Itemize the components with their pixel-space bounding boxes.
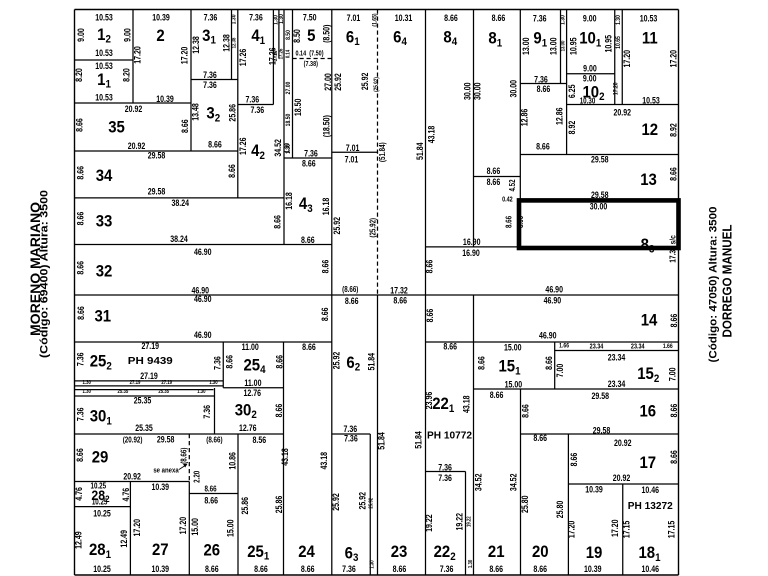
svg-text:17.33 s/c: 17.33 s/c (668, 235, 678, 263)
svg-text:46.90: 46.90 (545, 284, 563, 294)
svg-text:23.34: 23.34 (608, 352, 626, 362)
svg-text:25.35: 25.35 (135, 423, 153, 433)
svg-text:23: 23 (391, 543, 408, 561)
se anexa annotation (153, 464, 187, 475)
svg-text:7.36: 7.36 (203, 80, 217, 90)
svg-text:2: 2 (156, 27, 164, 45)
svg-text:29.58: 29.58 (148, 186, 166, 196)
svg-text:25.86: 25.86 (274, 495, 284, 513)
wire (426, 246, 520, 248)
wire (678, 10, 680, 576)
svg-text:12.86: 12.86 (520, 108, 530, 126)
svg-text:6.25: 6.25 (567, 84, 577, 98)
svg-text:8.66: 8.66 (302, 342, 316, 352)
svg-text:17.20: 17.20 (566, 520, 576, 538)
svg-text:34.52: 34.52 (273, 139, 283, 157)
svg-text:10.39: 10.39 (584, 564, 602, 574)
svg-text:9.00: 9.00 (583, 74, 597, 84)
svg-text:16: 16 (639, 403, 656, 421)
svg-text:7.36: 7.36 (245, 94, 259, 104)
svg-text:17.32: 17.32 (390, 285, 408, 295)
svg-text:1.30: 1.30 (209, 380, 218, 387)
svg-text:(20.92): (20.92) (123, 436, 143, 445)
wire (621, 10, 623, 105)
svg-text:(7.38): (7.38) (304, 60, 318, 68)
svg-text:10.25: 10.25 (93, 509, 111, 519)
svg-text:29.58: 29.58 (157, 435, 175, 445)
svg-text:43.18: 43.18 (427, 125, 437, 143)
svg-text:8.66: 8.66 (537, 84, 551, 94)
svg-text:27.00: 27.00 (285, 82, 292, 95)
svg-text:1.30: 1.30 (197, 389, 206, 396)
wire (75, 244, 332, 246)
wire (560, 10, 562, 84)
svg-text:29.58: 29.58 (593, 425, 611, 435)
wire (474, 388, 679, 390)
svg-text:29: 29 (92, 449, 109, 467)
svg-text:10.53: 10.53 (95, 48, 113, 58)
svg-text:10.46: 10.46 (641, 485, 659, 495)
svg-text:8.66: 8.66 (205, 564, 219, 574)
svg-text:29.58: 29.58 (591, 391, 609, 401)
svg-text:17.20: 17.20 (668, 50, 678, 68)
svg-text:34.52: 34.52 (474, 473, 484, 491)
svg-text:1.66: 1.66 (663, 343, 674, 350)
wire (331, 10, 333, 576)
svg-text:8.66: 8.66 (227, 164, 237, 178)
svg-text:46.90: 46.90 (194, 330, 212, 340)
svg-text:19.22: 19.22 (424, 514, 434, 532)
svg-text:20.92: 20.92 (123, 472, 141, 482)
highlighted parcel 8_3 outline (519, 200, 679, 248)
svg-text:21: 21 (488, 543, 505, 561)
svg-text:46.90: 46.90 (544, 295, 562, 305)
svg-text:27.19: 27.19 (140, 371, 158, 381)
svg-text:12.38: 12.38 (221, 34, 231, 52)
svg-text:8.66: 8.66 (444, 13, 458, 23)
svg-text:8.66: 8.66 (505, 216, 514, 228)
svg-text:10.31: 10.31 (395, 13, 413, 23)
svg-text:7.00: 7.00 (555, 363, 565, 377)
svg-text:10.25: 10.25 (93, 564, 111, 574)
wire (75, 385, 224, 387)
svg-text:18.50: 18.50 (285, 114, 292, 127)
wire (520, 83, 566, 85)
svg-text:8.66: 8.66 (75, 165, 85, 179)
svg-text:8.92: 8.92 (567, 120, 577, 134)
svg-text:7.36: 7.36 (75, 407, 85, 421)
wire (292, 10, 294, 159)
svg-text:8.66: 8.66 (669, 313, 679, 327)
svg-text:2.20: 2.20 (193, 471, 202, 483)
svg-text:10.39: 10.39 (152, 564, 170, 574)
wire (75, 150, 238, 152)
wire (272, 10, 274, 105)
svg-text:7.36: 7.36 (440, 564, 454, 574)
svg-text:1.30: 1.30 (83, 380, 92, 387)
wire (75, 395, 215, 397)
svg-text:0.14: 0.14 (295, 50, 306, 58)
svg-text:51.84: 51.84 (376, 432, 386, 450)
wire (75, 59, 134, 61)
svg-text:8.66: 8.66 (516, 216, 525, 228)
svg-text:7.01: 7.01 (347, 13, 361, 23)
svg-text:8.66: 8.66 (75, 448, 85, 462)
svg-text:7.36: 7.36 (438, 463, 452, 473)
svg-text:33: 33 (96, 212, 113, 230)
wire (75, 102, 192, 104)
svg-text:9.00: 9.00 (583, 14, 597, 24)
svg-text:7.50: 7.50 (303, 12, 317, 22)
svg-text:34: 34 (96, 167, 113, 185)
svg-text:20.92: 20.92 (614, 438, 632, 448)
svg-text:17.26: 17.26 (238, 137, 248, 155)
svg-text:8.66: 8.66 (274, 354, 284, 368)
svg-text:8.50: 8.50 (292, 29, 302, 43)
svg-text:10.39: 10.39 (156, 94, 174, 104)
wire (425, 10, 427, 576)
svg-text:7.36: 7.36 (250, 105, 264, 115)
svg-text:10.86: 10.86 (228, 452, 238, 470)
wire (75, 506, 131, 508)
svg-text:8.66: 8.66 (487, 166, 501, 176)
svg-text:20.92: 20.92 (128, 141, 146, 151)
svg-text:17.20: 17.20 (132, 46, 142, 64)
svg-text:(Código: 47050) Altura: 3500: (Código: 47050) Altura: 3500 (708, 207, 720, 363)
street MORENO MARIANO (28, 190, 51, 358)
wire (129, 482, 131, 576)
wire (214, 388, 216, 434)
svg-text:43.18: 43.18 (280, 448, 290, 466)
svg-text:12.76: 12.76 (243, 388, 261, 398)
svg-text:12.76: 12.76 (239, 423, 257, 433)
svg-text:18.50: 18.50 (293, 98, 303, 116)
svg-text:30.00: 30.00 (472, 82, 482, 100)
svg-text:8.66: 8.66 (393, 295, 407, 305)
svg-text:(18.50): (18.50) (321, 115, 331, 137)
svg-text:8.66: 8.66 (180, 119, 190, 133)
svg-text:15.00: 15.00 (504, 342, 522, 352)
svg-text:25.92: 25.92 (331, 493, 341, 511)
wire (75, 389, 214, 391)
wire (332, 433, 370, 435)
svg-text:8.66: 8.66 (443, 342, 457, 352)
svg-text:26: 26 (203, 542, 220, 560)
svg-text:10.53: 10.53 (95, 12, 113, 22)
svg-text:17.20: 17.20 (179, 46, 189, 64)
svg-text:12.86: 12.86 (555, 107, 565, 125)
wire (231, 10, 233, 80)
svg-text:(1.65): (1.65) (372, 13, 379, 26)
svg-text:9.00: 9.00 (583, 63, 597, 73)
svg-text:(51.84): (51.84) (378, 142, 387, 162)
svg-text:8.66: 8.66 (76, 306, 86, 320)
svg-text:38.24: 38.24 (170, 234, 188, 244)
svg-text:25.92: 25.92 (332, 216, 342, 234)
svg-text:7.36: 7.36 (75, 352, 85, 366)
svg-text:19.22: 19.22 (455, 512, 465, 530)
svg-text:17.20: 17.20 (132, 518, 142, 536)
svg-text:38.24: 38.24 (171, 198, 189, 208)
svg-text:8.66: 8.66 (536, 141, 550, 151)
svg-text:(8.66): (8.66) (342, 286, 359, 295)
svg-text:11.00: 11.00 (242, 342, 260, 352)
svg-text:DORREGO MANUEL: DORREGO MANUEL (720, 224, 735, 337)
svg-text:43.18: 43.18 (319, 452, 329, 470)
svg-text:11: 11 (642, 30, 658, 48)
svg-text:30.00: 30.00 (462, 82, 472, 100)
wire (189, 493, 238, 495)
wire (519, 10, 521, 199)
svg-text:20.92: 20.92 (125, 104, 143, 114)
svg-text:13.00: 13.00 (548, 37, 558, 55)
svg-text:30.00: 30.00 (508, 80, 518, 98)
svg-text:8.66: 8.66 (544, 356, 554, 370)
svg-text:PH 10772: PH 10772 (427, 430, 472, 442)
svg-text:8.56: 8.56 (252, 435, 266, 445)
svg-text:16.18: 16.18 (284, 192, 294, 210)
svg-text:(25.92): (25.92) (373, 77, 380, 92)
wire (377, 295, 379, 575)
svg-text:10.53: 10.53 (640, 14, 658, 24)
svg-text:10.53: 10.53 (95, 61, 113, 71)
svg-text:7.36: 7.36 (533, 14, 547, 24)
svg-text:20.92: 20.92 (613, 107, 631, 117)
svg-text:16.90: 16.90 (462, 248, 480, 258)
svg-text:10.53: 10.53 (95, 92, 113, 102)
svg-text:1.30: 1.30 (231, 14, 238, 24)
svg-text:8.66: 8.66 (393, 564, 407, 574)
svg-text:7.36: 7.36 (304, 148, 318, 158)
svg-text:8.66: 8.66 (302, 158, 316, 168)
wire (568, 483, 678, 485)
svg-text:(8.66): (8.66) (206, 436, 223, 445)
svg-text:5: 5 (307, 27, 315, 45)
svg-text:17.20: 17.20 (613, 82, 620, 95)
wire (75, 380, 224, 382)
svg-text:13.00: 13.00 (521, 37, 531, 55)
wire (75, 574, 679, 576)
wire (190, 10, 192, 152)
svg-text:8.20: 8.20 (121, 68, 131, 82)
svg-text:12.38: 12.38 (191, 36, 201, 54)
svg-text:8.66: 8.66 (669, 403, 679, 417)
svg-text:8.66: 8.66 (489, 564, 503, 574)
wire (222, 342, 224, 388)
svg-text:25.92: 25.92 (368, 498, 375, 509)
wire (426, 471, 466, 473)
svg-text:29.58: 29.58 (148, 150, 166, 160)
svg-text:30.00: 30.00 (590, 201, 608, 211)
svg-text:19: 19 (586, 544, 603, 562)
svg-text:16.18: 16.18 (321, 197, 331, 215)
wire (474, 176, 521, 178)
svg-text:25.80: 25.80 (555, 500, 565, 518)
wire (622, 484, 624, 575)
svg-text:7.36: 7.36 (342, 564, 356, 574)
svg-text:15.00: 15.00 (190, 518, 200, 536)
svg-text:1.66: 1.66 (559, 343, 570, 350)
svg-text:8.66: 8.66 (204, 496, 218, 506)
svg-text:PH 13272: PH 13272 (628, 500, 673, 512)
svg-text:17.20: 17.20 (622, 50, 632, 68)
svg-text:8.66: 8.66 (274, 403, 284, 417)
svg-text:7.01: 7.01 (346, 143, 360, 153)
wire (520, 154, 678, 156)
wire (473, 295, 475, 575)
wire (555, 350, 679, 352)
parcel numbers (89, 26, 661, 564)
wire (520, 389, 522, 575)
svg-text:10.46: 10.46 (641, 564, 659, 574)
svg-text:8.50: 8.50 (285, 30, 292, 40)
wire (75, 294, 679, 296)
svg-text:25.92: 25.92 (331, 351, 341, 369)
svg-text:8.66: 8.66 (425, 259, 435, 273)
street DORREGO MANUEL (708, 207, 735, 363)
wire (75, 9, 679, 11)
svg-text:8.66: 8.66 (533, 564, 547, 574)
wire (566, 10, 568, 155)
svg-text:(7.50): (7.50) (309, 50, 323, 58)
svg-text:46.90: 46.90 (194, 247, 212, 257)
svg-text:se anexa: se anexa (153, 467, 179, 475)
svg-text:25.86: 25.86 (240, 497, 250, 515)
wire (284, 157, 332, 159)
wire (283, 342, 285, 575)
svg-text:46.90: 46.90 (194, 294, 212, 304)
svg-text:9.00: 9.00 (122, 28, 132, 42)
svg-text:10.39: 10.39 (585, 484, 603, 494)
svg-text:4.52: 4.52 (508, 179, 517, 191)
svg-text:27.19: 27.19 (161, 380, 172, 387)
wire (237, 434, 239, 575)
svg-text:8.66: 8.66 (425, 308, 435, 322)
svg-text:16.90: 16.90 (463, 237, 481, 247)
svg-text:51.84: 51.84 (415, 142, 425, 160)
svg-text:7.36: 7.36 (343, 424, 357, 434)
svg-text:7.36: 7.36 (203, 70, 217, 80)
wire (188, 482, 190, 576)
svg-text:27.19: 27.19 (141, 341, 159, 351)
svg-text:8.66: 8.66 (75, 260, 85, 274)
svg-text:8.66: 8.66 (533, 433, 547, 443)
svg-text:51.84: 51.84 (367, 353, 377, 371)
svg-text:35: 35 (108, 118, 125, 136)
wire (278, 10, 280, 59)
svg-text:17.15: 17.15 (621, 520, 631, 538)
wire (426, 341, 679, 343)
svg-text:25.92: 25.92 (360, 72, 370, 90)
svg-text:4.76: 4.76 (121, 487, 131, 501)
svg-text:PH 9439: PH 9439 (128, 355, 173, 367)
wire (554, 342, 556, 389)
svg-text:12: 12 (641, 121, 658, 139)
svg-text:7.36: 7.36 (438, 473, 452, 483)
svg-text:8.66: 8.66 (487, 177, 501, 187)
svg-text:17.26: 17.26 (238, 48, 248, 66)
block boundary and parcel lines (75, 10, 679, 576)
svg-text:20.92: 20.92 (613, 473, 631, 483)
wire (74, 10, 76, 576)
svg-text:8.66: 8.66 (75, 211, 85, 225)
svg-text:10.53: 10.53 (642, 95, 660, 105)
svg-text:17: 17 (639, 454, 656, 472)
svg-text:0.42: 0.42 (502, 196, 513, 204)
svg-text:27.00: 27.00 (323, 73, 333, 91)
svg-text:12.49: 12.49 (119, 530, 129, 548)
svg-text:8.66: 8.66 (669, 450, 679, 464)
svg-text:(8.66): (8.66) (180, 447, 189, 464)
svg-text:23.34: 23.34 (590, 343, 604, 351)
svg-text:10.39: 10.39 (152, 482, 170, 492)
wire (223, 387, 283, 389)
wire (465, 472, 467, 576)
wire (369, 434, 371, 575)
svg-text:17.26: 17.26 (278, 48, 285, 59)
svg-text:20: 20 (532, 543, 549, 561)
svg-text:1.30: 1.30 (278, 14, 285, 24)
wire (377, 10, 379, 296)
svg-text:25.80: 25.80 (520, 495, 530, 513)
wire (567, 104, 679, 106)
svg-text:17.20: 17.20 (178, 516, 188, 534)
svg-text:8.66: 8.66 (490, 390, 504, 400)
svg-text:8.66: 8.66 (74, 118, 84, 132)
svg-text:25.92: 25.92 (358, 492, 368, 510)
wire (567, 434, 569, 575)
wire (75, 481, 190, 483)
svg-text:29.58: 29.58 (591, 190, 609, 200)
svg-text:25.86: 25.86 (227, 104, 237, 122)
svg-text:23.34: 23.34 (608, 379, 626, 389)
wire (473, 10, 475, 247)
svg-text:15.00: 15.00 (505, 380, 523, 390)
svg-text:12.49: 12.49 (73, 531, 83, 549)
svg-text:1.30: 1.30 (616, 15, 623, 25)
svg-text:13: 13 (640, 171, 657, 189)
svg-text:46.90: 46.90 (539, 330, 557, 340)
svg-text:8.66: 8.66 (492, 13, 506, 23)
svg-text:(8.50): (8.50) (321, 24, 331, 43)
svg-text:25.92: 25.92 (333, 73, 343, 91)
svg-text:12.38: 12.38 (231, 37, 238, 48)
wire (237, 10, 239, 198)
svg-text:7.36: 7.36 (202, 404, 212, 418)
svg-text:8.66: 8.66 (668, 167, 678, 181)
svg-text:8.66: 8.66 (345, 296, 359, 306)
svg-text:10.95: 10.95 (603, 35, 613, 53)
svg-text:14: 14 (641, 311, 658, 329)
svg-text:7.36: 7.36 (344, 434, 358, 444)
svg-text:13.48: 13.48 (191, 103, 201, 121)
svg-text:34.52: 34.52 (509, 473, 519, 491)
svg-text:8.92: 8.92 (668, 123, 678, 137)
svg-text:25.35: 25.35 (118, 389, 129, 396)
wire (75, 433, 284, 435)
svg-text:7.36: 7.36 (204, 12, 218, 22)
svg-text:1.30: 1.30 (284, 143, 291, 153)
svg-text:1.30: 1.30 (560, 15, 567, 25)
svg-text:9.00: 9.00 (76, 28, 86, 42)
svg-text:27.19: 27.19 (130, 380, 141, 387)
svg-text:23.34: 23.34 (631, 343, 645, 351)
svg-text:17.15: 17.15 (666, 520, 676, 538)
svg-text:32: 32 (96, 262, 113, 280)
svg-text:29.58: 29.58 (591, 154, 609, 164)
wire (283, 10, 285, 245)
svg-text:43.18: 43.18 (461, 395, 471, 413)
